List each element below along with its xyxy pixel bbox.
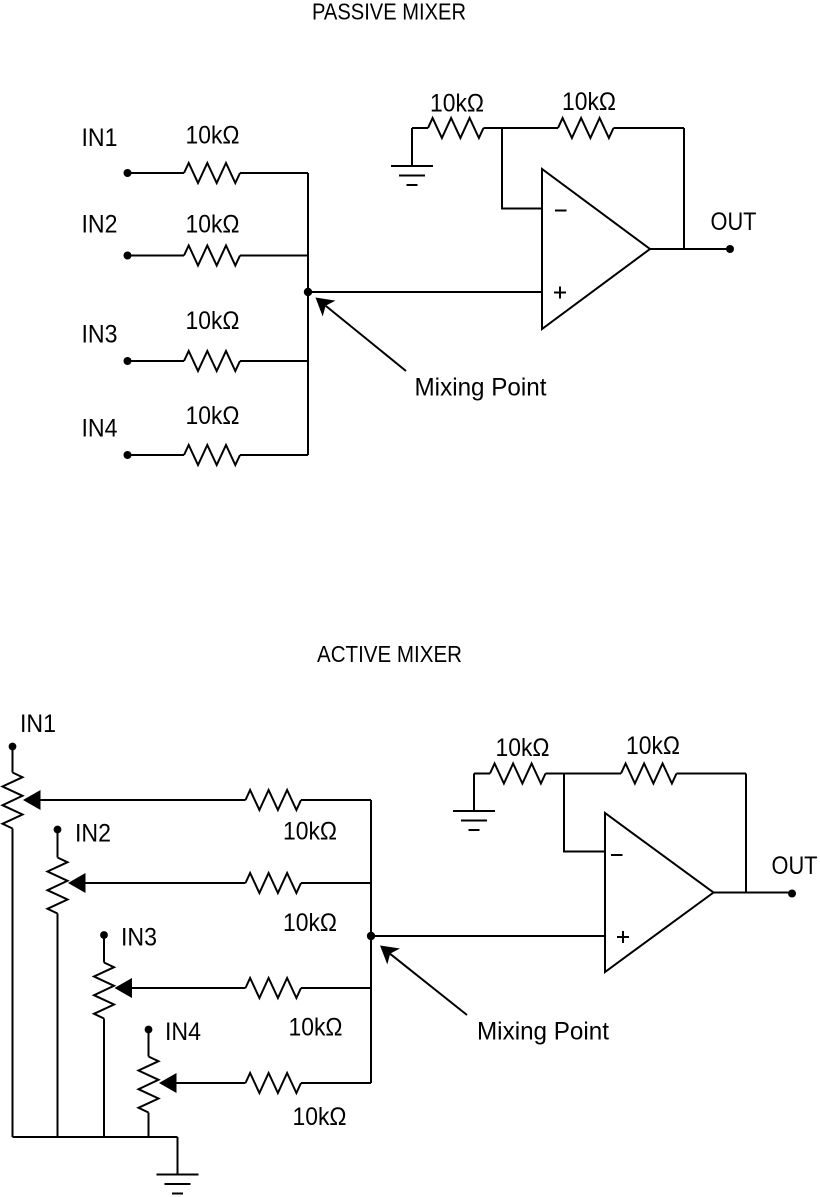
wire R1 to summing bus (240, 172, 308, 174)
ground symbol G2 (input bus) (157, 1137, 199, 1194)
ground symbol G1 (391, 128, 433, 185)
potentiometer VR4 body (139, 1057, 159, 1113)
wire R3 to summing bus (240, 360, 308, 362)
resistor R8 (246, 873, 302, 893)
svg-text:IN4: IN4 (165, 1018, 201, 1046)
resistor R10 (246, 1073, 302, 1093)
op-amp U1 inverting pin (-) mark (555, 210, 567, 212)
svg-text:IN3: IN3 (121, 924, 157, 952)
svg-text:Mixing Point: Mixing Point (477, 1018, 609, 1046)
svg-text:OUT: OUT (711, 208, 757, 236)
wire IN2 terminal to VR2 (57, 830, 59, 858)
wire VR1 bottom to ground bus (12, 829, 14, 1138)
resistor R3 (184, 351, 240, 371)
wire IN4 terminal to R4 (131, 454, 184, 456)
svg-text:OUT: OUT (772, 852, 818, 880)
terminal dot IN2 (124, 252, 132, 260)
resistor R12 (feedback) (621, 764, 677, 784)
annotation arrowhead (passive) (316, 298, 336, 317)
wire R11 to inverting junction (546, 773, 622, 775)
wire VR4 wiper to R10 (176, 1082, 246, 1084)
terminal dot IN2 (active) (54, 826, 62, 834)
svg-text:10kΩ: 10kΩ (283, 909, 337, 937)
op-amp U2 non-inverting pin (+) mark (617, 931, 629, 943)
wire feedback vertical to U2 output (745, 774, 747, 894)
potentiometer VR2 wiper arrow (68, 873, 86, 893)
svg-text:10kΩ: 10kΩ (293, 1103, 347, 1131)
potentiometer VR1 wiper arrow (23, 790, 41, 810)
wire R2 to summing bus (240, 255, 308, 257)
svg-text:IN1: IN1 (82, 124, 118, 152)
node: mixing point (active) (367, 932, 375, 940)
svg-text:IN3: IN3 (82, 321, 118, 349)
wire mixing point to op-amp U2 non-inverting input (371, 935, 605, 937)
svg-text:IN2: IN2 (82, 211, 118, 239)
wire R12 to feedback corner (677, 773, 747, 775)
svg-text:IN1: IN1 (20, 710, 56, 738)
wire inverting junction to U2 minus input (564, 774, 605, 852)
svg-text:10kΩ: 10kΩ (562, 88, 616, 116)
op-amp U2 inverting pin (-) mark (611, 854, 623, 856)
resistor R6 (feedback) (558, 118, 614, 138)
svg-text:10kΩ: 10kΩ (289, 1014, 343, 1042)
wire R4 to summing bus (240, 454, 308, 456)
node: mixing point (passive) (304, 288, 312, 296)
wire VR2 wiper to R8 (85, 882, 246, 884)
svg-text:10kΩ: 10kΩ (496, 734, 550, 762)
svg-text:10kΩ: 10kΩ (626, 732, 680, 760)
resistor R2 (184, 246, 240, 266)
wire R6 to feedback corner (614, 127, 685, 129)
terminal dot IN1 (124, 169, 132, 177)
wire ground to R11 (474, 773, 490, 775)
resistor R11 (490, 764, 546, 784)
op-amp U1 (542, 169, 650, 329)
svg-text:10kΩ: 10kΩ (186, 402, 240, 430)
resistor R9 (246, 978, 302, 998)
svg-text:10kΩ: 10kΩ (186, 307, 240, 335)
summing bus wire (active) (370, 800, 372, 1083)
wire VR3 wiper to R9 (131, 987, 246, 989)
resistor R4 (184, 445, 240, 465)
node OUT (passive) (726, 245, 734, 253)
wire R7 to summing bus (301, 799, 371, 801)
potentiometer VR3 body (94, 963, 114, 1019)
terminal dot IN4 (124, 451, 132, 459)
terminal dot IN4 (active) (145, 1026, 153, 1034)
wire feedback vertical to U1 output (683, 128, 685, 249)
wire VR4 bottom to ground bus (148, 1113, 150, 1138)
terminal dot IN3 (active) (100, 931, 108, 939)
ground bus wire (active) (13, 1136, 178, 1138)
annotation arrow shaft (active mixing point) (390, 954, 467, 1015)
op-amp U1 non-inverting pin (+) mark (554, 287, 566, 299)
potentiometer VR1 body (3, 773, 23, 829)
svg-text:10kΩ: 10kΩ (186, 211, 240, 239)
svg-text:10kΩ: 10kΩ (430, 90, 484, 118)
potentiometer VR3 wiper arrow (115, 978, 133, 998)
resistor R1 (184, 163, 240, 183)
summing bus wire (307, 173, 309, 455)
resistor R5 (428, 118, 484, 138)
node OUT (active) (788, 890, 796, 898)
wire IN3 terminal to R3 (131, 360, 184, 362)
wire mixing point to op-amp U1 non-inverting input (308, 291, 542, 293)
annotation arrow shaft (passive mixing point) (326, 306, 406, 371)
wire VR1 wiper to R7 (40, 799, 246, 801)
wire inverting junction to U1 minus input (502, 128, 542, 209)
svg-text:IN4: IN4 (82, 415, 118, 443)
ground symbol G3 (453, 774, 495, 831)
svg-text:ACTIVE MIXER: ACTIVE MIXER (317, 641, 462, 667)
op-amp U2 (605, 813, 714, 972)
terminal dot IN3 (124, 357, 132, 365)
resistor R7 (246, 790, 302, 810)
wire R10 to summing bus (301, 1082, 371, 1084)
wire U2 output to OUT (714, 892, 790, 894)
wire U1 output to OUT (650, 248, 727, 250)
wire R5 to inverting junction (484, 127, 559, 129)
svg-text:10kΩ: 10kΩ (186, 122, 240, 150)
svg-text:10kΩ: 10kΩ (283, 818, 337, 846)
wire R9 to summing bus (301, 987, 371, 989)
wire R8 to summing bus (301, 882, 371, 884)
wire VR3 bottom to ground bus (103, 1019, 105, 1138)
potentiometer VR2 body (48, 858, 68, 914)
wire IN1 terminal to VR1 (12, 747, 14, 773)
annotation arrowhead (active) (380, 946, 400, 965)
terminal dot IN1 (active) (9, 743, 17, 751)
svg-text:IN2: IN2 (75, 820, 111, 848)
potentiometer VR4 wiper arrow (159, 1073, 177, 1093)
wire IN3 terminal to VR3 (103, 935, 105, 963)
wire IN4 terminal to VR4 (148, 1030, 150, 1057)
wire IN1 terminal to R1 (131, 172, 184, 174)
wire ground to R5 (412, 127, 428, 129)
svg-text:PASSIVE MIXER: PASSIVE MIXER (312, 0, 466, 25)
wire IN2 terminal to R2 (131, 255, 184, 257)
wire VR2 bottom to ground bus (57, 914, 59, 1138)
svg-text:Mixing Point: Mixing Point (415, 374, 547, 402)
